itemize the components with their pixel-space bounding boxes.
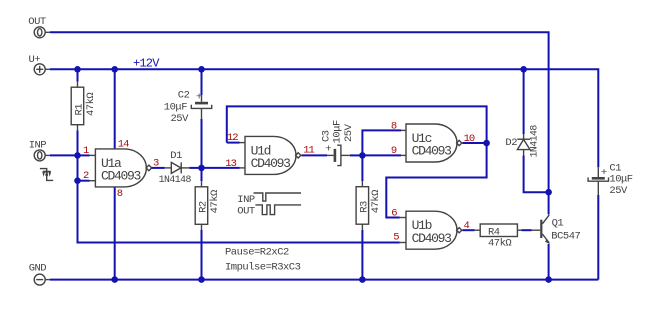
wire OUT net: top horizontal then down to Q1 collector [50, 32, 549, 192]
svg-text:8: 8 [391, 120, 397, 132]
capacitor C3 10uF 25V [320, 120, 355, 166]
svg-text:10μF: 10μF [164, 102, 187, 114]
svg-text:9: 9 [391, 145, 397, 157]
svg-text:12: 12 [227, 132, 238, 144]
node junction U+/R1 [74, 66, 81, 73]
resistor R2 47k [195, 168, 221, 280]
node junction C3/R3/pin8/pin9 [359, 152, 366, 159]
svg-text:CD4093: CD4093 [251, 156, 291, 171]
wire U1a out to D1 [152, 167, 172, 169]
wire D2 anode to collector node [524, 156, 549, 193]
wire pin12 horizontal [227, 142, 245, 144]
svg-text:47kΩ: 47kΩ [209, 190, 221, 213]
node junction U+/pin14 [111, 66, 118, 73]
capacitor C1 10uF 25V [588, 163, 633, 280]
svg-text:Q1: Q1 [552, 218, 564, 230]
wire node to U1d pin13 [202, 167, 246, 169]
svg-text:Pause=R2xC2: Pause=R2xC2 [225, 246, 289, 258]
diode D1 1N4148 [159, 150, 192, 185]
wire U1d out to C3 [301, 154, 333, 156]
wire Q1 collector up to node [548, 192, 550, 214]
node junction U+/C2 [198, 66, 205, 73]
svg-text:13: 13 [225, 158, 236, 170]
svg-text:47kΩ: 47kΩ [370, 190, 382, 213]
svg-text:CD4093: CD4093 [412, 231, 452, 246]
wire +12V rail [50, 69, 599, 167]
wire node to U1c pin9 [362, 154, 406, 156]
wire INP to junction [50, 154, 78, 156]
svg-text:BC547: BC547 [551, 231, 580, 243]
resistor R1 47k [71, 69, 97, 155]
connector INP [29, 139, 50, 161]
svg-text:25V: 25V [171, 113, 190, 125]
wire C3 to node [350, 154, 363, 156]
resistor R4 47k [480, 224, 521, 249]
svg-text:+: + [601, 167, 607, 179]
resistor R3 47k [356, 155, 382, 279]
wire U1b out to R4 [462, 229, 480, 231]
svg-text:6: 6 [391, 208, 397, 220]
wire pin1 [78, 154, 96, 156]
svg-text:1N4148: 1N4148 [529, 125, 540, 158]
wire U1a pin8 to GND [114, 187, 116, 280]
wire GND rail [50, 279, 599, 281]
svg-text:OUT: OUT [237, 206, 255, 218]
legend OUT waveform [237, 205, 301, 218]
svg-text:+12V: +12V [133, 57, 160, 71]
wire R4 to Q1 base [522, 229, 541, 231]
wire U1a pin14 from +12V [114, 69, 116, 149]
svg-text:+: + [196, 92, 202, 104]
svg-text:8: 8 [117, 188, 123, 200]
svg-text:D1: D1 [170, 150, 182, 162]
node junction GND/pin8 [111, 276, 118, 283]
node junction D2/OUT/collector [545, 189, 552, 196]
svg-text:Impulse=R3xC3: Impulse=R3xC3 [225, 262, 301, 274]
svg-text:OUT: OUT [28, 16, 46, 28]
op-amp U1d CD4093 nand gate [245, 136, 301, 174]
svg-text:INP: INP [237, 194, 255, 206]
svg-text:R1: R1 [74, 104, 86, 116]
wire feedback U1c out to U1d pin12 [227, 106, 487, 143]
connector OUT [28, 16, 50, 38]
node junction GND/R3 [359, 276, 366, 283]
svg-text:47kΩ: 47kΩ [488, 237, 511, 249]
diode D2 1N4148 [505, 69, 539, 157]
node junction U1c out/feedback [483, 140, 490, 147]
node junction GND/emitter [545, 276, 552, 283]
svg-text:10μF: 10μF [332, 120, 344, 143]
node junction INP/pin1 [74, 152, 81, 159]
svg-text:2: 2 [83, 170, 89, 182]
svg-text:R2: R2 [198, 201, 210, 213]
connector GND [29, 262, 50, 285]
wire U1c out down-left to U1b pin6 [386, 143, 486, 218]
svg-text:INP: INP [29, 139, 47, 151]
svg-text:25V: 25V [343, 123, 355, 142]
wire U1c out to feedback node [462, 142, 486, 144]
capacitor C2 10uF 25V [164, 69, 212, 168]
svg-text:D2: D2 [505, 137, 517, 149]
svg-text:R3: R3 [358, 201, 370, 213]
legend INP waveform [237, 193, 301, 206]
svg-text:C3: C3 [320, 130, 332, 142]
touch plate symbol below INP [40, 169, 53, 181]
wire pin2 [78, 155, 96, 180]
svg-text:CD4093: CD4093 [101, 169, 141, 184]
op-amp U1a CD4093 nand gate [95, 149, 151, 187]
svg-text:47kΩ: 47kΩ [85, 93, 97, 116]
wire node up to U1c pin8 [362, 130, 406, 155]
node junction U+/D2 [520, 66, 527, 73]
connector U+ [29, 54, 50, 75]
op-amp U1b CD4093 nand gate [406, 211, 462, 249]
svg-text:+: + [325, 144, 331, 156]
wire Q1 emitter down to GND [548, 244, 550, 280]
svg-text:C2: C2 [178, 89, 190, 101]
op-amp U1c CD4093 nand gate [406, 124, 462, 162]
svg-text:1N4148: 1N4148 [159, 174, 192, 185]
node junction GND/R2 [198, 276, 205, 283]
wire D1 cathode to node [189, 167, 201, 169]
svg-text:5: 5 [393, 232, 399, 244]
svg-text:CD4093: CD4093 [412, 144, 452, 159]
svg-text:25V: 25V [609, 185, 628, 197]
node junction INP/pin2 [74, 177, 81, 184]
transistor Q1 BC547 [540, 215, 580, 244]
svg-text:10μF: 10μF [609, 173, 632, 185]
svg-text:1: 1 [83, 145, 89, 157]
node junction D1/C2/R2/pin13 [198, 165, 205, 172]
svg-text:GND: GND [29, 262, 47, 274]
wire INP net down and right to pin5 [78, 181, 400, 243]
